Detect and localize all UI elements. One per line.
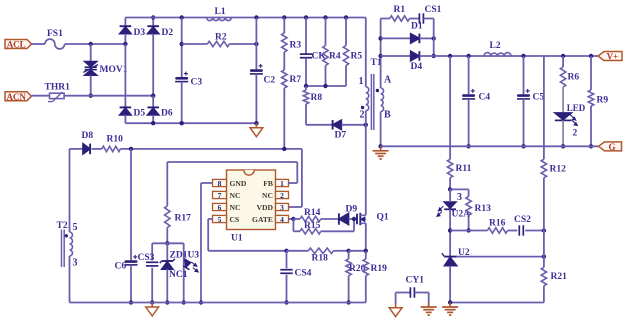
- resistor R1: [381, 5, 410, 21]
- node CK top: [304, 15, 308, 19]
- svg-text:THR1: THR1: [45, 83, 71, 93]
- svg-text:L2: L2: [490, 41, 501, 51]
- svg-text:D6: D6: [161, 109, 173, 119]
- node D2 top rail: [151, 15, 155, 19]
- optocoupler U3 LED: [169, 243, 199, 302]
- diode D4: [381, 51, 423, 72]
- svg-text:7: 7: [218, 191, 222, 200]
- svg-text:FB: FB: [263, 179, 273, 188]
- terminal V+: [598, 52, 622, 62]
- wire snubber right leg: [433, 19, 435, 57]
- svg-text:D2: D2: [162, 28, 174, 38]
- node R13 bottom: [466, 228, 470, 232]
- resistor R18: [287, 248, 349, 263]
- svg-text:C4: C4: [479, 93, 491, 103]
- svg-text:R16: R16: [489, 219, 506, 229]
- optocoupler U2A LED: [437, 189, 491, 256]
- wire pin8 GND: [201, 183, 213, 303]
- diode D9: [339, 205, 357, 225]
- pin 1 label: [359, 76, 364, 87]
- node D4 right: [432, 54, 436, 58]
- resistor R13: [466, 197, 471, 231]
- node U2 ref / divider: [542, 254, 546, 258]
- diode D2: [147, 18, 173, 96]
- capacitor C4: [462, 56, 490, 146]
- resistor R15: [293, 219, 354, 234]
- svg-text:R17: R17: [175, 214, 192, 224]
- resistor R6: [560, 56, 579, 87]
- wire primary ground rail: [70, 302, 366, 304]
- node R9 bottom: [589, 144, 593, 148]
- wire R18 line end: [349, 250, 366, 252]
- node R11 top: [448, 54, 452, 58]
- svg-text:R8: R8: [311, 93, 323, 103]
- node L1 right / C2 top: [254, 15, 258, 19]
- node CS3 bottom / ground: [150, 300, 154, 304]
- svg-text:R1: R1: [394, 5, 406, 15]
- svg-text:U1: U1: [231, 234, 243, 244]
- capacitor CS3: [138, 243, 159, 302]
- node R17 bottom: [165, 241, 169, 245]
- svg-text:ACL: ACL: [7, 40, 26, 50]
- wire secondary ground link: [450, 302, 544, 304]
- capacitor CS4: [280, 251, 311, 303]
- svg-text:D3: D3: [134, 28, 146, 38]
- wire R12 to R21: [543, 231, 545, 268]
- node R15 joins gate: [352, 217, 356, 221]
- resistor R8: [303, 86, 322, 125]
- U1 pin boxes: [213, 179, 289, 222]
- svg-text:C6: C6: [115, 262, 127, 272]
- capacitor C6: [115, 149, 138, 303]
- svg-text:LED: LED: [567, 103, 586, 113]
- svg-text:G: G: [608, 142, 615, 152]
- node gate split: [291, 217, 295, 221]
- diode D1: [381, 22, 434, 44]
- svg-text:NC: NC: [230, 203, 241, 212]
- capacitor CS2: [508, 215, 544, 236]
- shunt regulator U2: [442, 248, 470, 303]
- node CS4 top: [284, 249, 288, 253]
- svg-text:R12: R12: [550, 165, 567, 175]
- wire secondary top: [380, 19, 382, 89]
- node C5 bottom: [521, 144, 525, 148]
- resistor R17: [165, 206, 192, 243]
- node C2 bottom / primary ground: [254, 121, 258, 125]
- node C4 bottom: [466, 144, 470, 148]
- resistor R7: [282, 52, 302, 149]
- fuse FS1: [45, 29, 65, 49]
- node R9 top: [589, 54, 593, 58]
- ground U2 (earth): [442, 303, 458, 316]
- wire ZD1 top rail: [152, 242, 184, 244]
- wire R13 branch: [450, 189, 469, 196]
- svg-text:CY1: CY1: [406, 276, 425, 286]
- pin A label: [384, 75, 392, 86]
- wire D8 anode leg: [69, 149, 71, 232]
- wire pin4 GATE stub: [289, 218, 294, 220]
- wire ACN to THR1: [32, 95, 50, 97]
- node C4 top: [466, 54, 470, 58]
- svg-text:V+: V+: [607, 52, 619, 62]
- LED indicator: [555, 87, 586, 146]
- svg-text:C3: C3: [191, 78, 203, 88]
- node C3 top: [180, 15, 184, 19]
- resistor R10: [92, 135, 123, 152]
- node R5 top: [344, 15, 348, 19]
- node pin8 ground rail: [199, 300, 203, 304]
- svg-text:MOV1: MOV1: [100, 65, 128, 75]
- wire output rail: [419, 55, 598, 57]
- transistor Q1: [357, 213, 389, 226]
- capacitor C5: [517, 56, 544, 146]
- resistor R2: [182, 33, 257, 47]
- svg-text:1: 1: [280, 179, 284, 188]
- pin B label: [384, 110, 391, 121]
- node secondary ground: [378, 144, 382, 148]
- node ZD1 bottom: [165, 300, 169, 304]
- node D6 bottom: [151, 121, 155, 125]
- resistor R19: [363, 251, 387, 303]
- svg-text:U3: U3: [188, 251, 200, 261]
- svg-text:4: 4: [280, 215, 284, 224]
- node ACN-MOV1 junction: [89, 94, 93, 98]
- resistor R11: [447, 159, 471, 189]
- svg-text:R4: R4: [329, 52, 341, 62]
- wire R10 to VDD corner: [120, 148, 302, 150]
- svg-text:2: 2: [360, 110, 365, 121]
- node R16 left: [448, 228, 452, 232]
- svg-text:GATE: GATE: [252, 215, 273, 224]
- node CK-R8 junction: [304, 84, 308, 88]
- ground CY1 secondary side: [421, 303, 437, 316]
- wire D7 to T1 pin2: [341, 124, 365, 126]
- T1 core: [371, 74, 373, 130]
- wire VDD drop: [289, 149, 302, 207]
- ground secondary (T1): [373, 146, 389, 159]
- svg-text:B: B: [384, 110, 391, 121]
- svg-text:8: 8: [218, 179, 222, 188]
- resistor R5: [343, 18, 362, 87]
- svg-text:FS1: FS1: [47, 29, 63, 39]
- wire Q1 source: [365, 223, 367, 251]
- thermistor THR1: [45, 83, 71, 102]
- resistor R16: [450, 219, 508, 234]
- resistor R9: [588, 56, 608, 146]
- terminal ACL: [5, 40, 32, 50]
- svg-text:2: 2: [573, 129, 578, 139]
- resistor R4: [323, 18, 341, 87]
- diode D5: [120, 44, 146, 123]
- resistor R14: [293, 208, 339, 222]
- wire G rail: [381, 145, 599, 147]
- node D1 right: [432, 36, 436, 40]
- svg-text:R14: R14: [304, 208, 321, 218]
- node R3 top: [282, 15, 286, 19]
- svg-text:R3: R3: [290, 41, 302, 51]
- terminal ACN: [5, 92, 32, 102]
- capacitor C2: [250, 18, 275, 124]
- svg-text:NC: NC: [230, 191, 241, 200]
- node CS4 bottom: [284, 300, 288, 304]
- capacitor CK: [300, 18, 327, 87]
- node C6 bottom: [129, 300, 133, 304]
- svg-text:R21: R21: [551, 272, 568, 282]
- wire T2 bottom to ground rail: [69, 256, 71, 303]
- node T1 pin2 / drain: [364, 123, 368, 127]
- resistor R20: [346, 251, 366, 303]
- transformer T2: [57, 221, 78, 269]
- node D4 left: [378, 54, 382, 58]
- node D1 left: [378, 36, 382, 40]
- resistor R12: [541, 159, 566, 230]
- node R4 bottom: [323, 84, 327, 88]
- svg-text:NC: NC: [262, 191, 273, 200]
- node ACL-MOV1 junction: [89, 42, 93, 46]
- node R11 bottom: [448, 187, 452, 191]
- zener ZD1: [160, 243, 188, 302]
- node bridge left / ACL: [123, 42, 127, 46]
- svg-text:GND: GND: [230, 179, 247, 188]
- inductor L2: [484, 41, 511, 56]
- svg-text:Q1: Q1: [377, 213, 389, 223]
- wire Q1 drain: [365, 125, 367, 216]
- wire D9 to gate: [349, 218, 357, 220]
- svg-text:2: 2: [280, 191, 284, 200]
- svg-text:R5: R5: [351, 52, 363, 62]
- node R4 top: [323, 15, 327, 19]
- node C6 junction: [129, 147, 133, 151]
- svg-text:C2: C2: [264, 76, 276, 86]
- svg-text:5: 5: [73, 222, 78, 233]
- svg-text:D1: D1: [411, 22, 423, 32]
- wire THR1 to bridge: [64, 95, 153, 97]
- diode D6: [147, 96, 172, 124]
- diode D7: [333, 120, 347, 141]
- svg-text:CS2: CS2: [514, 215, 531, 225]
- diode D8: [70, 131, 94, 154]
- svg-text:5: 5: [218, 215, 222, 224]
- svg-text:3: 3: [280, 203, 284, 212]
- node bridge right / ACN: [151, 94, 155, 98]
- ground CY1 primary side: [389, 304, 402, 317]
- svg-text:R18: R18: [312, 254, 329, 264]
- svg-text:1: 1: [359, 76, 364, 87]
- svg-text:R9: R9: [597, 96, 609, 106]
- node U2 anode ground: [448, 300, 452, 304]
- svg-text:A: A: [384, 75, 392, 86]
- svg-text:R15: R15: [304, 221, 321, 231]
- svg-text:CS1: CS1: [425, 5, 442, 15]
- svg-text:D4: D4: [411, 62, 423, 72]
- svg-text:D8: D8: [82, 131, 94, 141]
- svg-text:R6: R6: [568, 73, 580, 83]
- node C5 top: [521, 54, 525, 58]
- T1 primary winding: [361, 87, 369, 111]
- svg-text:VDD: VDD: [257, 203, 274, 212]
- node R6 top: [561, 54, 565, 58]
- diode D3: [120, 18, 146, 45]
- op-amp U1 body: [227, 170, 276, 244]
- node LED bottom: [561, 144, 565, 148]
- wire T1 primary bottom: [365, 111, 367, 125]
- svg-text:3: 3: [73, 258, 78, 269]
- U1 pin names: [230, 179, 274, 224]
- terminal G: [599, 142, 622, 152]
- svg-text:R7: R7: [290, 75, 302, 85]
- svg-text:R13: R13: [475, 204, 492, 214]
- wire bridge minus rail: [125, 122, 256, 124]
- capacitor CY1: [396, 276, 429, 308]
- wire clamp group bottom: [306, 85, 346, 87]
- capacitor CS1: [410, 5, 442, 24]
- node Q1 source / R19: [364, 249, 368, 253]
- wire ACL to FS1: [32, 43, 46, 45]
- U1 pin numbers: [218, 179, 285, 224]
- node R20 top: [346, 249, 350, 253]
- wire R11 drop: [449, 56, 451, 159]
- svg-text:D7: D7: [335, 131, 347, 141]
- svg-text:CS3: CS3: [138, 253, 155, 263]
- svg-text:R11: R11: [456, 164, 472, 174]
- wire pin5 CS: [208, 219, 286, 251]
- node R20 bottom: [346, 300, 350, 304]
- svg-text:C5: C5: [533, 93, 545, 103]
- node R2 left: [180, 42, 184, 46]
- wire FS1 to bridge: [65, 43, 126, 45]
- wire R12 drop: [543, 56, 545, 159]
- node C3 bottom: [180, 121, 184, 125]
- svg-text:D9: D9: [346, 205, 358, 215]
- svg-text:L1: L1: [215, 7, 226, 17]
- wire R8 to D7: [306, 124, 333, 126]
- capacitor C3: [175, 18, 202, 124]
- inductor L1: [207, 7, 232, 21]
- node U3 bottom: [182, 300, 186, 304]
- varistor MOV1: [83, 44, 127, 96]
- resistor R3: [282, 18, 302, 53]
- svg-text:R19: R19: [371, 264, 388, 274]
- node CS2 right: [542, 228, 546, 232]
- transformer T1 label: [371, 58, 382, 68]
- svg-text:3: 3: [457, 192, 462, 203]
- svg-text:R10: R10: [107, 135, 124, 145]
- node R2 right / C2: [254, 42, 258, 46]
- ground primary (C2): [250, 123, 263, 137]
- wire FB loop: [167, 162, 297, 206]
- T1 secondary winding: [376, 88, 384, 112]
- wire T1 pin1 from rail: [365, 18, 367, 87]
- svg-text:ACN: ACN: [6, 92, 26, 102]
- svg-text:D5: D5: [134, 109, 146, 119]
- wire top rail: [125, 17, 365, 19]
- node R7 bottom junction: [282, 147, 286, 151]
- wire secondary bottom: [380, 112, 382, 147]
- pin 2 label: [360, 110, 365, 121]
- ground primary (bottom rail): [146, 303, 159, 317]
- svg-text:R2: R2: [215, 33, 227, 43]
- svg-text:CS: CS: [230, 215, 240, 224]
- wire U2 ref: [457, 256, 544, 258]
- svg-text:CS4: CS4: [295, 269, 312, 279]
- svg-text:6: 6: [218, 203, 222, 212]
- resistor R21: [541, 267, 567, 302]
- svg-text:NC1: NC1: [169, 270, 188, 280]
